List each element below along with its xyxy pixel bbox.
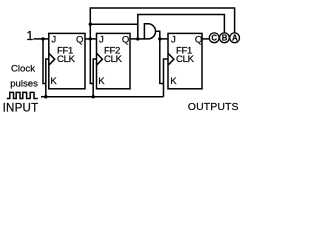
wire: FF2 Q to AND gate input — [130, 38, 144, 40]
svg-text:Q: Q — [122, 35, 129, 46]
svg-text:K: K — [98, 76, 105, 87]
wire: FF2 Q riser to rail B — [138, 15, 225, 39]
svg-text:C: C — [211, 34, 217, 43]
wire: FF3 J-K tie — [160, 39, 164, 84]
svg-text:INPUT: INPUT — [3, 101, 39, 114]
output circle B — [220, 33, 230, 43]
svg-text:Q: Q — [76, 35, 83, 46]
clock pulses waveform — [7, 92, 38, 98]
output circle C — [209, 33, 219, 43]
svg-text:B: B — [222, 34, 228, 43]
svg-text:CLK: CLK — [176, 54, 195, 65]
junction FF3 J — [158, 37, 161, 40]
svg-text:J: J — [51, 35, 56, 46]
junction clock FF2 — [92, 95, 95, 98]
wire: FF2 J-K tie (down from junction) — [90, 39, 93, 84]
svg-text:OUTPUTS: OUTPUTS — [188, 101, 239, 113]
svg-text:K: K — [170, 76, 177, 87]
junction FF1 Q — [89, 37, 92, 40]
clock chevron FF1 — [49, 53, 55, 65]
flip-flop FF3 box — [168, 33, 202, 88]
clock chevron FF2 — [97, 53, 103, 65]
wire: clock bus — [41, 96, 164, 98]
junction FF1 J-K — [41, 37, 44, 40]
flip-flop FF1 box — [49, 33, 85, 88]
AND gate U1 — [144, 24, 155, 39]
svg-text:CLK: CLK — [104, 54, 123, 65]
junction FF1 Q branch — [89, 23, 92, 26]
svg-text:J: J — [171, 35, 176, 46]
svg-text:J: J — [99, 35, 104, 46]
wire: AND output drop to FF3 J — [155, 31, 168, 39]
clock chevron FF3 — [168, 53, 174, 65]
wire: FF1 Q branch to AND region — [90, 23, 138, 25]
svg-text:K: K — [50, 76, 57, 87]
wire: clock riser FF3 — [164, 59, 169, 97]
output circle A — [230, 33, 240, 43]
wire: FF1 Q to FF2 J — [85, 38, 97, 40]
svg-text:pulses: pulses — [10, 78, 38, 89]
wire: 1 to J of FF1 — [34, 38, 49, 40]
wire: clock riser FF2 — [93, 59, 96, 97]
svg-text:CLK: CLK — [57, 54, 76, 65]
svg-text:Q: Q — [195, 35, 202, 46]
svg-text:Clock: Clock — [11, 63, 35, 74]
flip-flop FF2 box — [97, 33, 131, 88]
junction FF2 Q — [136, 37, 139, 40]
svg-text:A: A — [232, 34, 238, 43]
svg-text:1: 1 — [26, 28, 33, 43]
wire: FF3 Q to output C — [202, 38, 209, 40]
wire: clock riser FF1 — [46, 59, 49, 97]
wire: FF1 Q riser to top rail and output A — [90, 8, 234, 39]
junction clock FF1 — [44, 95, 47, 98]
wire: FF1 J-K tie — [43, 39, 46, 84]
